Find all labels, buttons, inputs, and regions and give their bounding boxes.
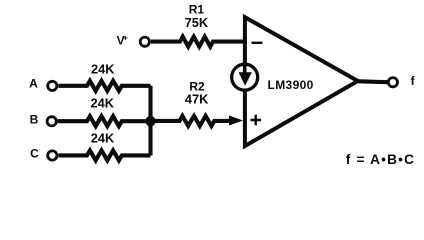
svg-text:f = A•B•C: f = A•B•C [346,152,415,167]
svg-text:C: C [30,147,39,161]
svg-text:A: A [29,76,38,90]
svg-text:47K: 47K [185,91,209,106]
svg-text:24K: 24K [91,61,115,76]
svg-text:24K: 24K [91,131,115,146]
svg-text:75K: 75K [185,15,209,30]
svg-text:LM3900: LM3900 [268,78,314,92]
svg-text:24K: 24K [91,96,115,111]
svg-text:B: B [30,112,39,126]
svg-text:+: + [123,32,128,42]
